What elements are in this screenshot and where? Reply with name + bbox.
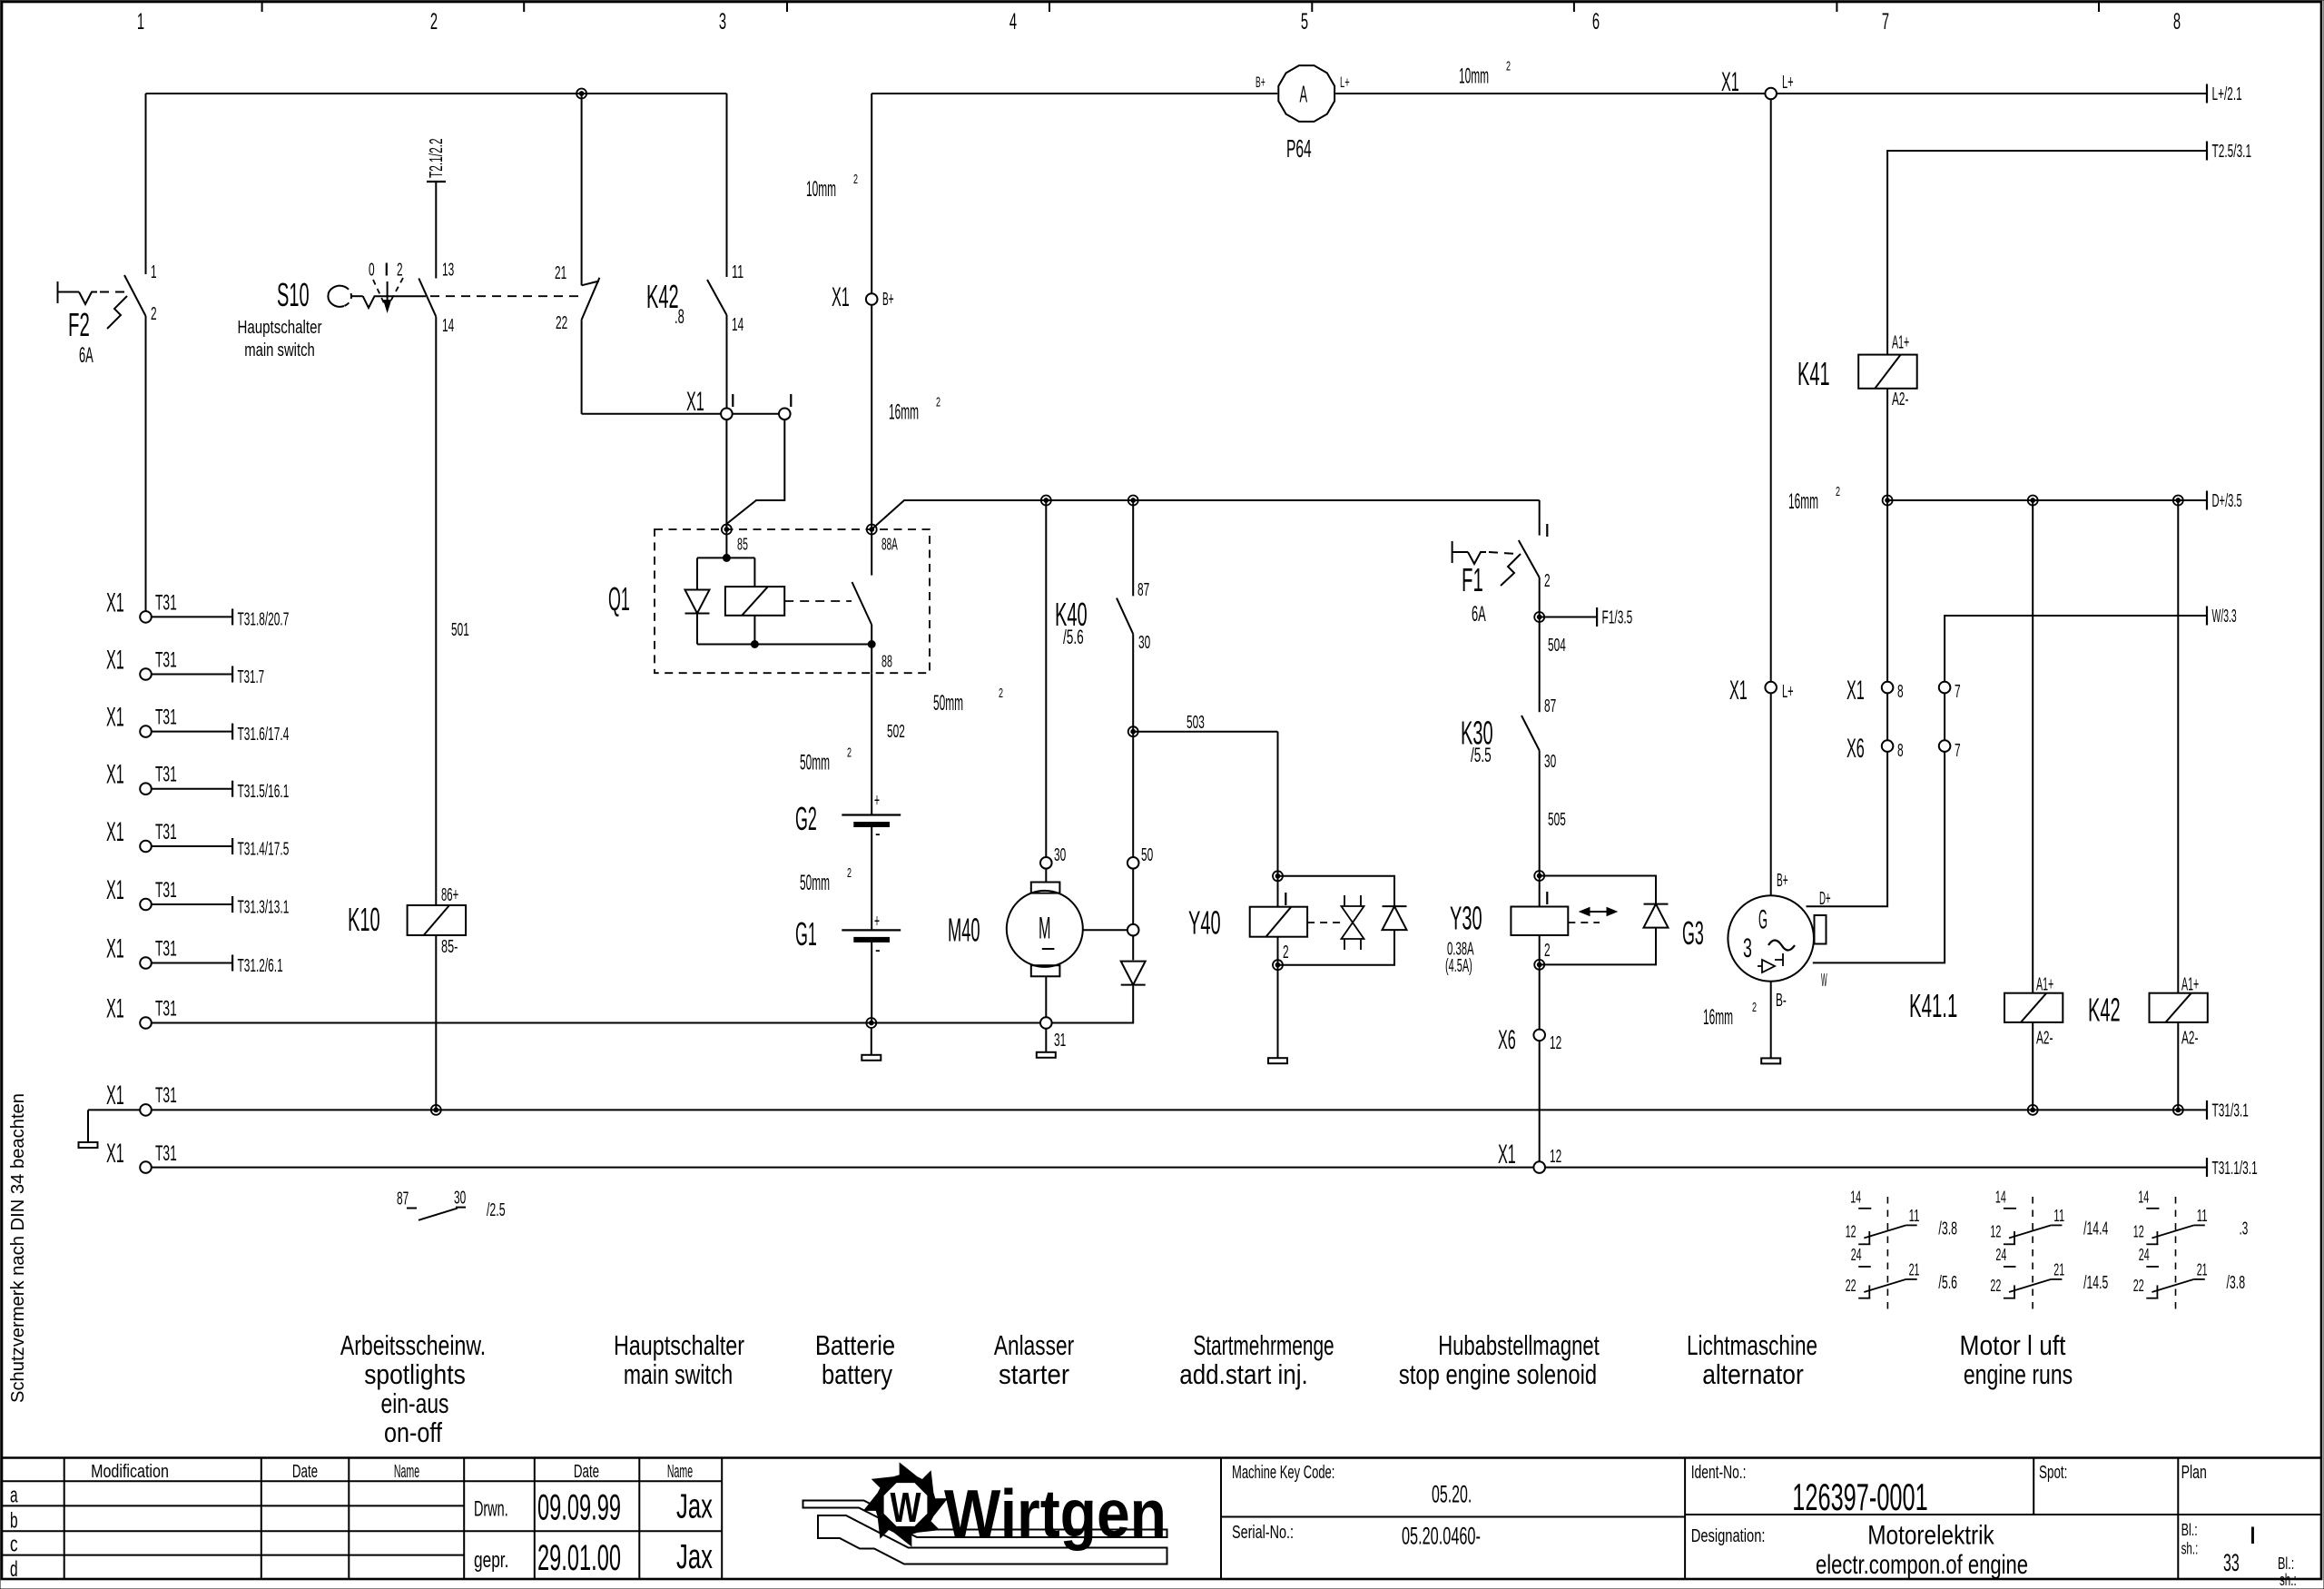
- svg-text:31: 31: [1054, 1031, 1066, 1051]
- svg-text:Bl.:: Bl.:: [2181, 1521, 2198, 1539]
- svg-text:T31.8/20.7: T31.8/20.7: [238, 610, 290, 630]
- svg-text:main switch: main switch: [244, 340, 315, 360]
- wire 501: S10 14 to K10: [435, 317, 437, 905]
- svg-text:B+: B+: [1256, 74, 1265, 91]
- svg-text:13: 13: [442, 261, 454, 281]
- wire: K42 feed: [2177, 500, 2179, 993]
- contact cross-reference table at x=2239.1: [2032, 1197, 2033, 1314]
- svg-text:A2-: A2-: [2181, 1028, 2198, 1048]
- Wirtgen logo drum icon: [864, 1463, 947, 1545]
- net stub T31.2/6.1: [152, 962, 232, 964]
- svg-text:X1: X1: [106, 760, 124, 790]
- svg-text:.3: .3: [2240, 1219, 2249, 1239]
- svg-text:Hauptschalter: Hauptschalter: [614, 1329, 744, 1361]
- switch S10 knob: [328, 286, 344, 307]
- contact cross-reference table at x=2079.4: [1886, 1197, 1888, 1314]
- svg-text:Drwn.: Drwn.: [474, 1497, 508, 1522]
- svg-text:126397-0001: 126397-0001: [1792, 1475, 1928, 1518]
- coil Y30: [1539, 876, 1541, 907]
- terminal X1 T31 row 9: [140, 1104, 152, 1116]
- terminal X1 T31 row 4: [140, 783, 152, 794]
- svg-text:2: 2: [1506, 59, 1511, 74]
- Q1 power contact 88A/88: [871, 529, 872, 576]
- svg-text:X1: X1: [1721, 67, 1739, 97]
- Y40 suppression loop: [1278, 876, 1395, 907]
- svg-text:50mm: 50mm: [933, 691, 963, 716]
- svg-text:Date: Date: [574, 1462, 599, 1482]
- net stub T31.5/16.1: [152, 788, 232, 790]
- junction Y40 bottom: [1273, 960, 1283, 970]
- wire: K42 feed drop: [726, 94, 728, 277]
- svg-text:X1: X1: [106, 1081, 124, 1110]
- svg-text:Batterie: Batterie: [815, 1329, 895, 1361]
- svg-text:sh.:: sh.:: [2280, 1571, 2297, 1589]
- junction K40 feed: [1128, 496, 1138, 506]
- svg-text:-: -: [875, 938, 881, 961]
- wire Y30 to X6: [1539, 964, 1541, 1029]
- svg-text:501: 501: [451, 620, 469, 640]
- svg-text:X6: X6: [1498, 1025, 1516, 1055]
- svg-text:Motor l uft: Motor l uft: [1960, 1329, 2066, 1361]
- svg-text:14: 14: [1850, 1189, 1861, 1207]
- svg-text:05.20.: 05.20.: [1432, 1481, 1472, 1508]
- wire: D+ down to alternator: [1807, 500, 1888, 906]
- wire 503 to Y40: [1133, 731, 1277, 733]
- svg-text:Designation:: Designation:: [1691, 1526, 1766, 1546]
- terminal X1 T31 row 3: [140, 725, 152, 737]
- title block frame: [2, 1456, 2321, 1459]
- svg-text:A1+: A1+: [2036, 975, 2053, 995]
- svg-text:85: 85: [737, 536, 748, 554]
- relay contact K40 87/30: [1132, 500, 1134, 596]
- svg-text:24: 24: [2139, 1246, 2150, 1264]
- svg-text:T31.1/3.1: T31.1/3.1: [2212, 1159, 2258, 1179]
- svg-text:7: 7: [1955, 741, 1961, 761]
- svg-text:2: 2: [1544, 941, 1551, 961]
- svg-text:Name: Name: [394, 1462, 419, 1482]
- battery G1: [842, 929, 901, 931]
- svg-text:7: 7: [1955, 682, 1961, 702]
- junction 88A: [867, 525, 877, 535]
- wire: ground to X1 row9: [88, 1109, 140, 1110]
- svg-text:14: 14: [2138, 1189, 2149, 1207]
- net stub T31.8/20.7: [152, 616, 232, 617]
- svg-text:502: 502: [887, 722, 905, 742]
- svg-text:main switch: main switch: [624, 1358, 733, 1390]
- svg-text:T2.1/2.2: T2.1/2.2: [427, 138, 447, 178]
- svg-text:spotlights: spotlights: [364, 1358, 466, 1390]
- Y40 valve symbol: [1307, 922, 1341, 923]
- wire: top L+ bus from F2 to K42 feed: [146, 93, 727, 94]
- svg-text:Motorelektrik: Motorelektrik: [1867, 1521, 1994, 1551]
- svg-text:engine runs: engine runs: [1964, 1358, 2073, 1390]
- svg-text:A2-: A2-: [1892, 390, 1908, 410]
- svg-text:8: 8: [1897, 741, 1904, 761]
- terminal X1 pin 1 (left): [721, 409, 733, 420]
- svg-text:/2.5: /2.5: [487, 1200, 506, 1220]
- svg-text:8: 8: [1897, 682, 1904, 702]
- relay contact K30 87/30: [1539, 617, 1541, 713]
- wire: T2.1/2.2 drop to S10 pin 13: [435, 182, 437, 279]
- svg-text:T31: T31: [155, 937, 177, 962]
- terminal X1 12: [1533, 1161, 1545, 1173]
- svg-text:I: I: [788, 391, 794, 411]
- svg-text:Lichtmaschine: Lichtmaschine: [1687, 1329, 1817, 1361]
- svg-text:6A: 6A: [79, 343, 94, 368]
- svg-text:X1: X1: [686, 387, 704, 417]
- terminal X1 T31 row 6: [140, 899, 152, 911]
- battery G2: [842, 814, 901, 815]
- svg-text:4: 4: [1009, 9, 1017, 35]
- svg-text:14: 14: [1995, 1189, 2006, 1207]
- svg-text:I: I: [1544, 521, 1551, 541]
- svg-text:87: 87: [1544, 696, 1556, 716]
- relay contact K42 11/14: [707, 280, 727, 315]
- svg-text:b: b: [10, 1509, 18, 1534]
- svg-text:sh.:: sh.:: [2181, 1540, 2199, 1558]
- alternator G3: [1728, 895, 1814, 982]
- svg-text:Jax: Jax: [676, 1538, 713, 1576]
- svg-text:50mm: 50mm: [800, 871, 830, 895]
- svg-text:24: 24: [1851, 1246, 1862, 1264]
- svg-text:X1: X1: [1846, 676, 1865, 706]
- junction Y30 bottom: [1534, 960, 1544, 970]
- fuse-switch F2: [145, 94, 147, 274]
- svg-text:G3: G3: [1682, 914, 1704, 952]
- svg-text:22: 22: [1846, 1277, 1856, 1295]
- tick F1/3.5: [1540, 617, 1597, 618]
- svg-text:gepr.: gepr.: [474, 1548, 508, 1573]
- svg-text:21: 21: [2053, 1260, 2064, 1278]
- svg-text:X1: X1: [106, 817, 124, 847]
- svg-text:1: 1: [151, 262, 157, 282]
- svg-text:T31: T31: [155, 763, 177, 787]
- column grid ticks: [261, 2, 263, 12]
- svg-text:2: 2: [151, 304, 157, 324]
- terminal X6 12: [1533, 1030, 1545, 1041]
- tick W/3.3: [2206, 607, 2208, 626]
- starter solenoid terminal: [1128, 924, 1139, 936]
- svg-text:A2-: A2-: [2036, 1028, 2053, 1048]
- svg-text:I: I: [1283, 890, 1289, 910]
- svg-text:22: 22: [2133, 1277, 2144, 1295]
- svg-text:Plan: Plan: [2181, 1463, 2207, 1483]
- wire: D+ bus: [1887, 499, 2207, 501]
- svg-text:I: I: [730, 391, 736, 411]
- svg-text:K41.1: K41.1: [1909, 987, 1957, 1024]
- svg-text:6A: 6A: [1472, 602, 1486, 627]
- svg-text:50: 50: [1141, 845, 1153, 865]
- svg-text:T31.7: T31.7: [238, 667, 265, 687]
- svg-text:2: 2: [847, 865, 852, 881]
- tick T2.5/3.1: [2206, 142, 2208, 161]
- svg-text:7: 7: [1882, 9, 1889, 35]
- Q1 coil branch: [725, 529, 727, 558]
- svg-text:Machine Key Code:: Machine Key Code:: [1232, 1463, 1334, 1483]
- wire: B+ vertical: [1770, 99, 1772, 682]
- wire: B+ to ammeter: [871, 93, 1277, 94]
- ground at left: [87, 1110, 89, 1142]
- svg-text:30: 30: [454, 1188, 466, 1208]
- terminal X1 T31 row 2: [140, 668, 152, 680]
- fuse-switch F1: [1519, 540, 1540, 577]
- junction at S10 branch: [576, 89, 586, 99]
- wire X6 to X1 12: [1539, 1041, 1541, 1161]
- svg-text:stop engine solenoid: stop engine solenoid: [1399, 1358, 1597, 1390]
- svg-text:33: 33: [2223, 1549, 2240, 1576]
- svg-text:P64: P64: [1286, 134, 1312, 163]
- wire: Q1 88 down to battery: [871, 673, 872, 814]
- svg-text:B-: B-: [1776, 991, 1787, 1011]
- terminal X1 L+ (top): [1765, 88, 1777, 100]
- Q1 internal bottom wire: [697, 644, 871, 646]
- tick T31/3.1: [2206, 1100, 2208, 1120]
- svg-text:D+: D+: [1819, 889, 1831, 909]
- svg-text:on-off: on-off: [384, 1416, 442, 1448]
- mechanical linkage dashes: [430, 295, 578, 297]
- svg-text:G2: G2: [795, 800, 817, 837]
- svg-text:22: 22: [1990, 1277, 2001, 1295]
- svg-text:Modification: Modification: [91, 1462, 169, 1482]
- svg-text:L+: L+: [1340, 74, 1350, 91]
- svg-text:L+: L+: [1782, 682, 1794, 702]
- svg-text:12: 12: [2133, 1223, 2144, 1241]
- svg-text:X1: X1: [106, 1139, 124, 1169]
- terminal X1 8: [1882, 682, 1894, 694]
- terminal X1 L+ (mid): [1765, 682, 1777, 694]
- junction M40 feed: [1041, 496, 1051, 506]
- svg-text:87: 87: [397, 1189, 409, 1209]
- S10 position arrow 0 I 2: [387, 281, 389, 307]
- svg-text:I: I: [1544, 889, 1551, 909]
- svg-text:88A: 88A: [881, 536, 898, 554]
- svg-text:T31: T31: [155, 820, 177, 844]
- battery ground: [871, 1028, 872, 1055]
- motor M40: [1031, 883, 1060, 893]
- wire: K41.1 feed: [2032, 500, 2033, 993]
- svg-text:I: I: [384, 261, 390, 281]
- terminal X1 T31 row 10: [140, 1161, 152, 1173]
- svg-text:2: 2: [1283, 943, 1289, 962]
- svg-text:2: 2: [1752, 1000, 1757, 1015]
- svg-text:K41: K41: [1797, 355, 1830, 392]
- svg-text:504: 504: [1548, 636, 1566, 656]
- svg-text:T31: T31: [155, 878, 177, 903]
- wire G1- to T31 row: [871, 942, 872, 1022]
- svg-text:T31: T31: [155, 706, 177, 730]
- svg-text:Spot:: Spot:: [2039, 1463, 2067, 1483]
- wire: S10 22 to X1 terminal row: [582, 413, 721, 415]
- svg-text:starter: starter: [999, 1358, 1069, 1390]
- svg-text:T31/3.1: T31/3.1: [2212, 1101, 2249, 1121]
- svg-text:Date: Date: [292, 1462, 318, 1482]
- svg-text:11: 11: [1909, 1207, 1920, 1225]
- terminal 50: [1128, 857, 1139, 869]
- tick T31.1/3.1: [2206, 1158, 2208, 1177]
- svg-text:6: 6: [1592, 9, 1600, 35]
- junction 85: [722, 525, 732, 535]
- junction Y40 top: [1273, 871, 1283, 881]
- terminal X1 T31 row 5: [140, 841, 152, 853]
- svg-text:24: 24: [1995, 1246, 2006, 1264]
- svg-text:K42: K42: [2088, 992, 2121, 1029]
- svg-text:+: +: [874, 912, 880, 932]
- svg-text:B+: B+: [882, 290, 894, 310]
- svg-text:12: 12: [1990, 1223, 2001, 1241]
- svg-text:2: 2: [847, 745, 852, 761]
- svg-text:d: d: [10, 1557, 18, 1582]
- relay Q1 dashed enclosure: [655, 529, 930, 673]
- terminal X6 8: [1882, 740, 1894, 752]
- svg-text:11: 11: [2053, 1207, 2064, 1225]
- wire: X1 down to Q1 85: [725, 419, 727, 529]
- svg-text:X1: X1: [106, 875, 124, 905]
- coil Y40: [1277, 876, 1279, 907]
- wire G2- to G1+: [871, 827, 872, 931]
- wire: F1 feed: [1539, 500, 1541, 536]
- wire: L+ to right edge: [1777, 93, 2207, 94]
- svg-text:88: 88: [881, 653, 892, 671]
- terminal 30: [1040, 857, 1052, 869]
- ammeter P64: [1278, 65, 1334, 122]
- svg-text:3: 3: [719, 9, 726, 35]
- net stub T31.7: [152, 674, 232, 676]
- svg-text:.8: .8: [675, 305, 684, 328]
- terminal X1 T31 row 1: [140, 611, 152, 623]
- svg-text:12: 12: [1550, 1147, 1561, 1167]
- M40 ground: [1045, 1029, 1047, 1052]
- svg-text:X1: X1: [106, 994, 124, 1024]
- svg-text:M40: M40: [948, 912, 980, 949]
- svg-text:X1: X1: [106, 646, 124, 676]
- wire: T31 row 8 to battery and M40: [152, 1022, 1040, 1024]
- svg-text:ein-aus: ein-aus: [381, 1387, 449, 1419]
- wire F1 2 to junction: [1539, 577, 1541, 617]
- svg-text:W/3.3: W/3.3: [2212, 607, 2237, 627]
- svg-text:21: 21: [1909, 1260, 1920, 1278]
- svg-text:3: 3: [1743, 933, 1752, 963]
- svg-text:Schutzvermerk nach DIN 34 beac: Schutzvermerk nach DIN 34 beachten: [8, 1093, 28, 1403]
- svg-text:W: W: [1821, 971, 1827, 991]
- wire K41 A2 to D+ bus: [1886, 389, 1888, 500]
- svg-text:T31: T31: [155, 1083, 177, 1108]
- svg-text:L+: L+: [1782, 73, 1794, 93]
- wire: T31/3.1 bus: [152, 1109, 2207, 1110]
- junction 503: [1128, 726, 1138, 736]
- svg-text:A1+: A1+: [1892, 332, 1909, 352]
- svg-text:T31.5/16.1: T31.5/16.1: [238, 782, 290, 802]
- svg-text:X1: X1: [106, 934, 124, 964]
- svg-text:/3.8: /3.8: [1938, 1219, 1957, 1239]
- svg-text:G1: G1: [795, 915, 817, 952]
- svg-text:1: 1: [137, 9, 144, 35]
- svg-text:/5.6: /5.6: [1938, 1273, 1957, 1293]
- svg-text:B+: B+: [1777, 871, 1788, 891]
- wire: T2.5 to K41 A1: [1887, 151, 2207, 355]
- wire: right X1 jog to 85 node: [726, 419, 784, 529]
- svg-text:Anlasser: Anlasser: [994, 1329, 1074, 1361]
- svg-text:50mm: 50mm: [800, 751, 830, 775]
- Q1 linkage dashes: [784, 600, 852, 602]
- svg-text:L+/2.1: L+/2.1: [2212, 84, 2242, 104]
- svg-text:2: 2: [1836, 484, 1840, 499]
- terminal 31: [1040, 1017, 1052, 1029]
- svg-text:Hauptschalter: Hauptschalter: [238, 318, 322, 338]
- svg-text:X1: X1: [832, 282, 850, 312]
- S10 contact 21/22 (NC): [581, 94, 583, 285]
- svg-text:electr.compon.of engine: electr.compon.of engine: [1816, 1550, 2028, 1580]
- svg-text:X6: X6: [1846, 734, 1865, 764]
- svg-text:a: a: [10, 1484, 18, 1508]
- svg-text:505: 505: [1548, 810, 1566, 830]
- svg-text:30: 30: [1138, 633, 1150, 653]
- svg-text:30: 30: [1054, 845, 1066, 865]
- svg-text:10mm: 10mm: [1459, 64, 1489, 89]
- tick D+/3.5: [2206, 491, 2208, 510]
- title block horizontals: [2, 1480, 722, 1482]
- svg-text:T31.4/17.5: T31.4/17.5: [238, 839, 290, 859]
- svg-text:S10: S10: [277, 276, 310, 313]
- svg-text:/5.6: /5.6: [1063, 626, 1084, 648]
- svg-text:21: 21: [2197, 1260, 2208, 1278]
- svg-text:Ident-No.:: Ident-No.:: [1691, 1463, 1747, 1483]
- svg-text:alternator: alternator: [1702, 1358, 1804, 1390]
- junction battery minus: [866, 1018, 876, 1028]
- svg-text:-: -: [875, 822, 881, 844]
- svg-text:X1: X1: [1498, 1140, 1516, 1170]
- tick L+/2.1: [2206, 84, 2208, 104]
- svg-text:12: 12: [1846, 1223, 1856, 1241]
- svg-text:86+: 86+: [441, 885, 458, 905]
- svg-text:14: 14: [442, 316, 454, 336]
- svg-text:21: 21: [555, 263, 566, 283]
- svg-text:11: 11: [2197, 1207, 2208, 1225]
- svg-text:A1+: A1+: [2181, 975, 2199, 995]
- svg-text:T31: T31: [155, 648, 177, 673]
- svg-text:F1/3.5: F1/3.5: [1602, 608, 1633, 628]
- terminal X1 pin 1 (right): [779, 409, 791, 420]
- svg-text:/14.5: /14.5: [2083, 1273, 2108, 1293]
- Q1 suppression diode: [696, 558, 698, 589]
- svg-text:2: 2: [999, 686, 1003, 701]
- svg-text:16mm: 16mm: [1788, 489, 1818, 514]
- Y30 actuator arrows: [1568, 922, 1600, 923]
- junction Y30 top: [1534, 871, 1544, 881]
- svg-text:29.01.00: 29.01.00: [537, 1538, 621, 1578]
- Y30 suppression loop: [1540, 876, 1656, 905]
- svg-text:Jax: Jax: [676, 1488, 713, 1526]
- svg-text:T31: T31: [155, 1141, 177, 1166]
- svg-text:M: M: [1039, 911, 1051, 945]
- svg-text:Startmehrmenge: Startmehrmenge: [1193, 1329, 1334, 1361]
- svg-text:c: c: [10, 1533, 18, 1557]
- svg-text:05.20.0460-: 05.20.0460-: [1402, 1523, 1481, 1550]
- svg-text:X1: X1: [1729, 676, 1748, 706]
- svg-text:T31: T31: [155, 997, 177, 1021]
- svg-text:I: I: [2249, 1522, 2257, 1549]
- svg-text:85-: 85-: [441, 937, 458, 957]
- svg-text:2: 2: [936, 395, 940, 410]
- wire: M40 feed 50mm2: [1045, 500, 1047, 857]
- svg-text:/5.5: /5.5: [1471, 744, 1492, 766]
- terminal X1 T31 row 7: [140, 957, 152, 969]
- svg-text:11: 11: [732, 262, 743, 282]
- svg-text:Serial-No.:: Serial-No.:: [1232, 1523, 1294, 1543]
- svg-text:16mm: 16mm: [1703, 1005, 1733, 1030]
- svg-text:W: W: [891, 1484, 921, 1531]
- svg-text:X1: X1: [106, 703, 124, 733]
- svg-text:Hubabstellmagnet: Hubabstellmagnet: [1438, 1329, 1600, 1361]
